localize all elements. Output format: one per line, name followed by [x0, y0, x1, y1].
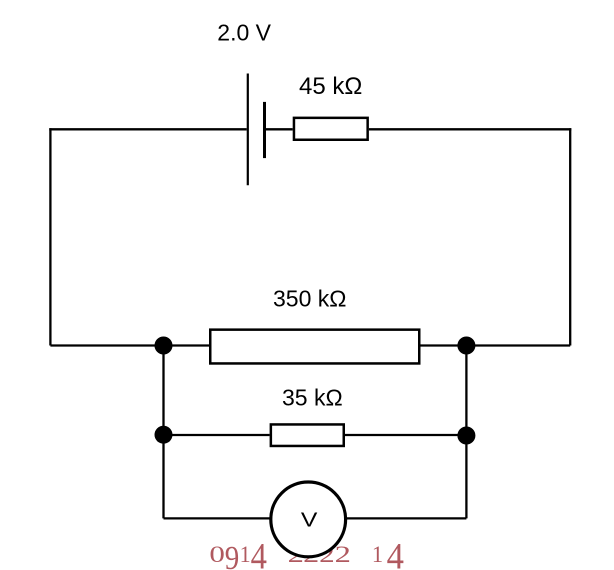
wire battery to resistor R1 [265, 128, 293, 130]
svg-text:350 kΩ: 350 kΩ [273, 286, 346, 312]
wire left vertical side [49, 128, 51, 345]
wire middle row left segment [50, 344, 209, 346]
resistor R1 45 kΩ body [294, 118, 368, 140]
node junction dot upper-right [457, 337, 475, 355]
wire right vertical side [569, 128, 571, 345]
svg-text:2.0 V: 2.0 V [217, 20, 271, 46]
svg-text:1: 1 [372, 542, 383, 567]
svg-text:0: 0 [209, 542, 225, 567]
svg-text:V: V [301, 509, 318, 531]
wire resistor R1 to top-right corner [369, 128, 571, 130]
wire left branch vertical [162, 346, 164, 519]
battery B1 positive plate (long) [247, 74, 249, 186]
svg-text:4: 4 [251, 537, 267, 570]
svg-text:4: 4 [387, 537, 404, 570]
node junction dot lower-right [457, 427, 475, 445]
resistor R2 350 kΩ body [210, 330, 419, 364]
wire voltmeter row left segment [164, 517, 271, 519]
wire 35k row left segment [164, 434, 270, 436]
svg-text:35 kΩ: 35 kΩ [282, 385, 343, 411]
voltmeter V1 body circle [271, 482, 346, 557]
wire voltmeter row right segment [347, 517, 467, 519]
wire 35k row right segment [345, 434, 466, 436]
battery B1 negative plate (short thick) [263, 102, 266, 158]
node junction dot upper-left [155, 337, 173, 355]
resistor R3 35 kΩ body [271, 424, 344, 446]
svg-text:2: 2 [335, 542, 351, 567]
svg-text:9: 9 [225, 540, 240, 570]
wire top-left horizontal [49, 128, 246, 130]
svg-text:1: 1 [240, 542, 251, 567]
watermark phone number 0914 2222 14 [209, 537, 404, 570]
wire middle row right segment [421, 344, 571, 346]
svg-text:45 kΩ: 45 kΩ [299, 73, 362, 100]
node junction dot lower-left [155, 426, 173, 444]
wire right branch vertical [465, 346, 467, 519]
